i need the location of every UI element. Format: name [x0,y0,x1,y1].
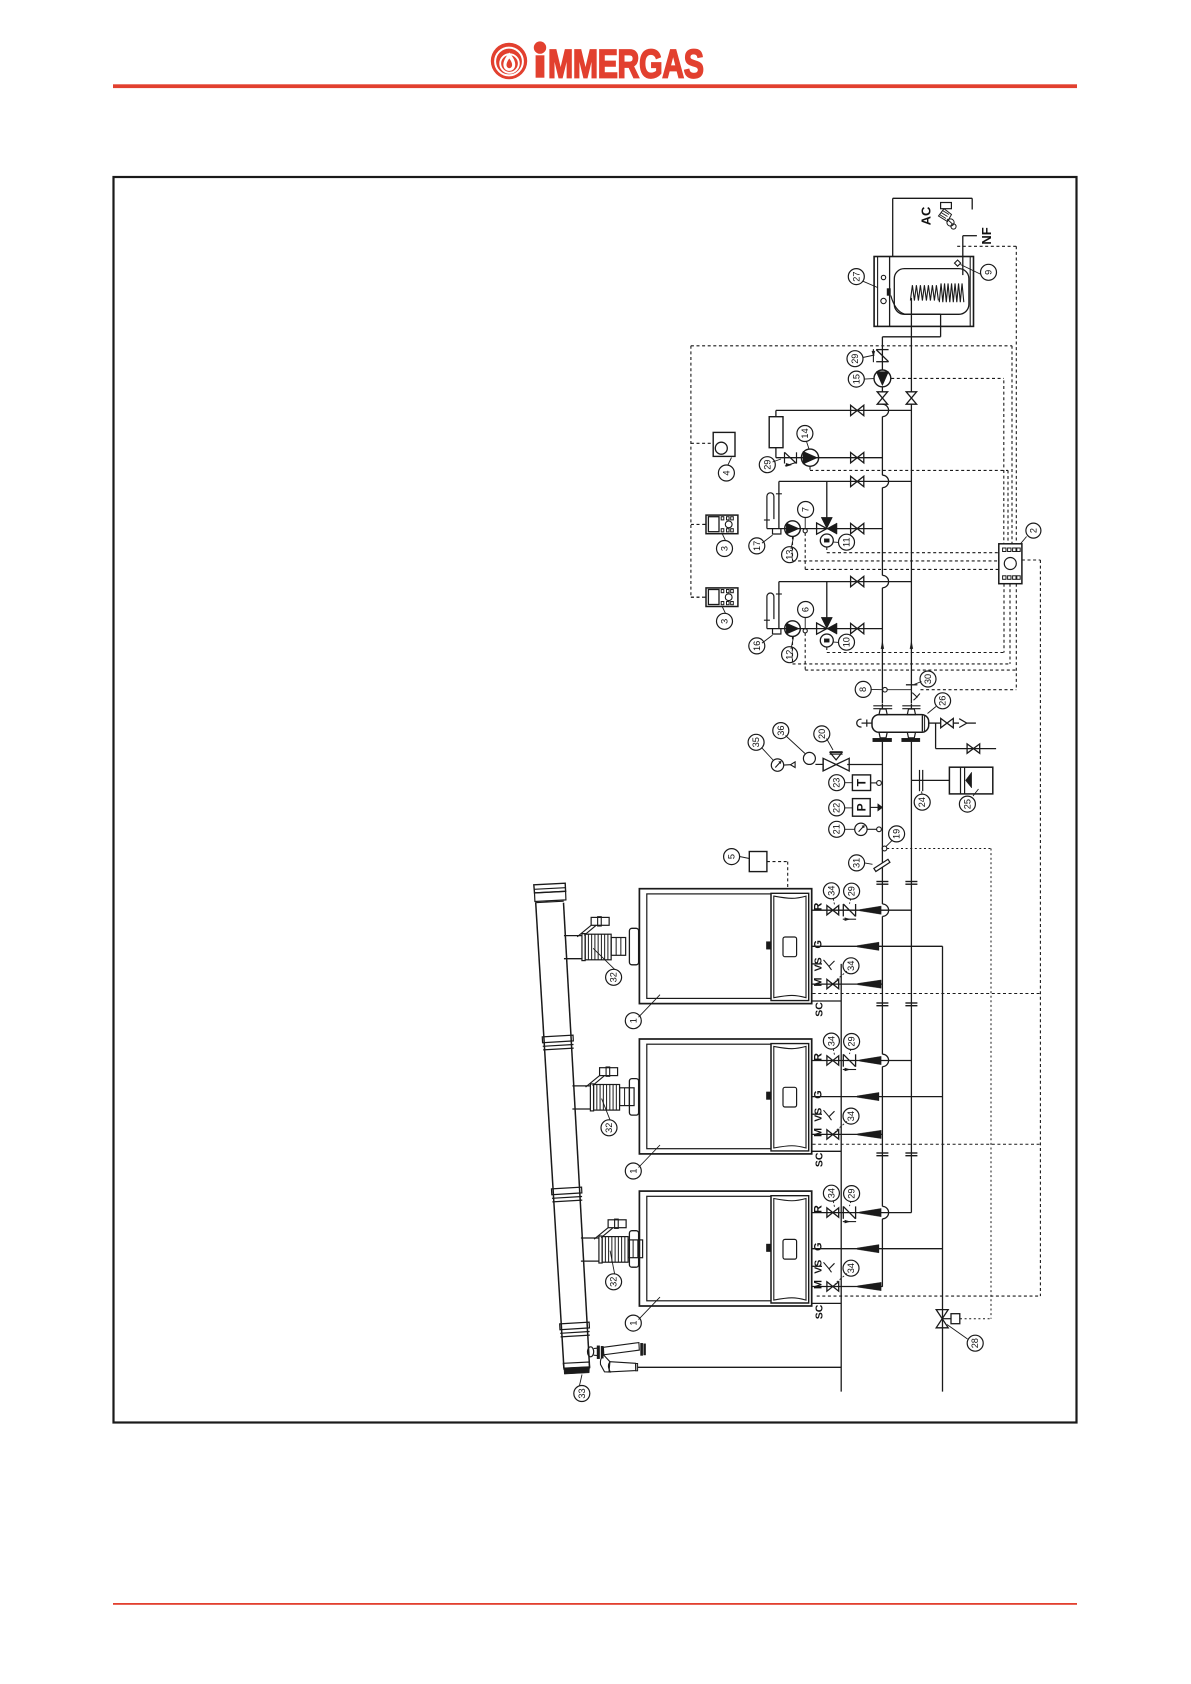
dashed zone2 wires to controller 2 [793,584,1017,670]
label circle 7 [798,502,814,518]
label M boiler 2 [813,1128,825,1137]
svg-text:34: 34 [846,961,856,971]
expansion box 4 [713,432,735,456]
flue gas sensor box 5 [749,852,767,872]
pipe h1 radiator flow header [776,409,912,411]
tank coil heat exchanger [910,283,963,302]
leader 31 [865,863,873,864]
label circle 25 [959,796,975,812]
label circle 29 [844,883,860,899]
DHW storage tank 27 outer casing [874,257,973,327]
svg-text:32: 32 [609,972,619,982]
valve 34 on R boiler 1 [827,906,839,915]
svg-text:29: 29 [850,354,860,364]
leader 15 [864,378,874,381]
leader 1 boiler 2 [639,1145,661,1168]
dashed pump14 wire [810,467,1008,471]
pipe zone 1 return [767,528,883,530]
pipe radiator drop [775,410,777,416]
label circle 28 [967,1335,983,1351]
leader 34 M boiler 2 [835,1121,847,1131]
thermometer well 17 [773,529,781,534]
label circle 1 [625,1315,641,1331]
tank sensor connector 9 [954,260,960,266]
pipe tank coil flow down [882,296,940,337]
label circle 3 [717,541,733,557]
svg-text:1: 1 [628,1168,638,1173]
leader 29 R boiler 3 [850,1201,851,1206]
leader 35 [762,748,774,761]
pipe radiator bottom [775,448,777,458]
label circle 4 [718,465,734,481]
gauge 21 manometer [855,823,882,835]
leader 11 [834,541,840,543]
tank inner vessel [894,269,969,315]
svg-text:13: 13 [785,550,795,560]
valve 34 on M boiler 2 [827,1130,839,1139]
svg-text:26: 26 [938,696,948,706]
svg-text:SC: SC [813,1152,825,1167]
svg-text:24: 24 [917,797,927,807]
leader 2 [1021,537,1027,544]
label circle 34 [843,1108,859,1124]
valve 34 on R boiler 3 [827,1208,839,1217]
flow arrow M boiler 1 [858,980,882,988]
zone 2 load U loop [764,593,782,629]
dashed bus verticals above controller 2 [1004,246,1017,544]
svg-text:5: 5 [727,854,737,859]
svg-text:3: 3 [720,546,730,551]
label circle 19 [889,826,905,842]
isolation valve riser B [906,392,916,404]
dotted boiler 2 wire [813,1143,1041,1145]
label circle 24 [914,794,930,810]
leader 3 zone 2 [722,607,725,614]
dotted wire sensor 19 to gas valve 28 [887,849,991,1319]
svg-text:21: 21 [832,824,842,834]
flow arrow R boiler 3 [860,1208,882,1216]
label circle 8 [855,681,871,697]
svg-text:23: 23 [832,778,842,788]
valve 34 on M boiler 3 [827,1282,839,1291]
isolation valve h1 [851,405,864,415]
label circle 11 [839,534,855,550]
label circle 35 [748,734,764,750]
check valve 29 on R boiler 2 [843,1054,856,1071]
label circle 34 [843,958,859,974]
dashed pump15 wire [891,377,1004,379]
svg-text:11: 11 [842,537,852,547]
leader 30 [915,682,922,685]
flow arrow riser B [910,641,913,649]
dashed wire to controller 3 zone 1 [691,523,703,525]
pump 15 DHW loading [874,337,891,387]
pipe M boiler 3 [812,1286,883,1288]
label circle 32 [606,969,622,985]
svg-text:29: 29 [847,1036,857,1046]
expansion vessel 25 [949,767,992,794]
dashed wire controller 2 to boilers [817,560,1041,1296]
riser B return pipe [910,404,912,1213]
pipe valve to supply zone 1 [826,481,828,517]
label R boiler 3 [813,1205,825,1213]
label R boiler 2 [813,1053,825,1061]
svg-text:12: 12 [785,650,795,660]
svg-text:P: P [854,803,868,811]
svg-text:3: 3 [720,619,730,624]
label VS boiler 2 [813,1108,825,1122]
pump 14 radiator circuit [801,449,818,466]
valve 34 on R boiler 2 [827,1056,839,1065]
leader 14 [807,442,810,450]
flow arrow G boiler 2 [857,1092,879,1100]
svg-text:G: G [813,940,825,949]
leader 33 [580,1375,583,1386]
svg-text:32: 32 [609,1277,619,1287]
pipe valve to supply zone 2 [826,582,828,618]
dashed bus top horizontal [691,345,1012,347]
label NF [979,227,994,244]
svg-text:M: M [813,1280,825,1289]
check valve 29 on R boiler 3 [843,1206,856,1223]
tank small port upper [881,275,885,279]
label circle 3 [717,613,733,629]
leader 1 boiler 1 [639,995,661,1018]
svg-text:34: 34 [846,1263,856,1273]
pipe AC hot outlet [893,198,973,256]
pipe zone 2 supply header [779,581,912,583]
gas valve 28 [936,1310,960,1328]
hydraulic separator 26 [872,704,929,745]
check valve 29 on R boiler 1 [843,904,856,921]
leader 19 [886,840,893,847]
label circle 33 [574,1386,590,1402]
svg-text:22: 22 [832,803,842,813]
svg-text:8: 8 [858,687,868,692]
chimney bottom cap 33 [563,1362,589,1374]
zone controller 3 box zone 2 [703,588,738,607]
label circle 10 [839,634,855,650]
pipe zone 1 supply header [779,480,912,482]
label circle 21 [829,821,845,837]
thermowell 30 on riser B [906,685,920,700]
label circle 34 [843,1260,859,1276]
bottom red rule [113,1603,1077,1605]
leader 27 [863,281,878,287]
pipe M boiler 1 [812,983,883,985]
svg-text:17: 17 [752,541,762,551]
pipe NF cold inlet [963,236,977,275]
pipe G boiler 2 [812,1096,943,1098]
leader 34 R boiler 3 [833,1201,834,1207]
flow arrow R boiler 2 [860,1056,882,1064]
valve 34 on M boiler 1 [827,979,839,988]
label circle 29 [759,457,775,473]
leader 12 [791,637,794,649]
tank thermostat black mark [887,289,891,296]
leader 24 [921,792,924,795]
leader 3 zone 1 [722,534,725,541]
svg-text:34: 34 [826,1036,836,1046]
svg-text:19: 19 [892,829,902,839]
label AC [919,206,934,225]
svg-text:34: 34 [826,1188,836,1198]
thermometer well 16 [773,629,781,634]
label circle 29 [844,1186,860,1202]
leader 28 [947,1325,968,1340]
label M boiler 1 [813,978,825,987]
svg-text:6: 6 [801,607,811,612]
check valve 29 radiator [785,452,797,466]
cascade controller 2 box [999,544,1022,584]
flow arrow M boiler 2 [858,1130,882,1138]
svg-text:1: 1 [628,1321,638,1326]
label VS boiler 1 [813,957,825,971]
flow arrow M boiler 3 [858,1282,882,1290]
sensor dot zone 2 [803,629,807,633]
leader 22 [845,807,853,809]
label G boiler 2 [813,1090,825,1099]
pipe zone 2 supply drop [778,582,780,629]
label circle 23 [829,775,845,791]
svg-text:T: T [855,778,869,786]
leader 29 dhw [863,355,875,358]
leader 26 [928,707,937,714]
leader 1 boiler 3 [639,1297,661,1320]
label circle 22 [829,800,845,816]
label circle 6 [798,602,814,618]
label circle 1 [625,1013,641,1029]
leader 36 [786,736,806,754]
leader 8 [871,688,883,690]
flue connector 32 boiler 3 [581,1219,643,1267]
expansion vessel line 24 [911,770,949,791]
svg-text:30: 30 [923,674,933,684]
Immergas logo icon [491,43,527,79]
svg-text:4: 4 [721,470,731,475]
dashed wire to box 4 [691,442,713,444]
dashed zone1 wires to controller 2 [793,533,999,570]
leader 4 [728,458,732,466]
svg-text:R: R [813,1053,825,1061]
separator right vent line [929,718,976,727]
pipe G boiler 3 [812,1248,943,1250]
dashed wire to sensors 8 30 [921,584,1017,690]
pipe h2 radiator return [776,457,883,459]
svg-text:31: 31 [852,858,862,868]
svg-text:M: M [813,978,825,987]
svg-text:34: 34 [826,886,836,896]
svg-text:10: 10 [842,637,852,647]
pipe VS boiler 1 [812,960,835,970]
svg-text:34: 34 [846,1111,856,1121]
svg-text:16: 16 [752,641,762,651]
svg-text:14: 14 [800,428,810,438]
label circle 13 [782,547,798,563]
gas manifold vertical [942,946,944,1391]
pipe SC boiler 2 [812,1150,842,1152]
label circle 36 [773,723,789,739]
sensor 19 dot [882,846,887,851]
label circle 16 [749,638,765,654]
dashed left control trunk [691,346,703,597]
svg-text:9: 9 [984,270,994,275]
svg-text:G: G [813,1090,825,1099]
riser A main flow pipe with bridges [882,404,888,1287]
check valve 29 DHW column [872,349,889,362]
pump 13 zone 1 [785,521,801,537]
leader 34 R boiler 1 [833,899,834,905]
label circle 27 [848,269,864,285]
radiator heat emitter [769,417,783,448]
svg-text:7: 7 [801,507,811,512]
chimney collars [542,1035,590,1337]
condensate siphon assembly 33 [588,1343,646,1372]
zone 1 load U loop [764,493,782,529]
label circle 17 [749,538,765,554]
leader 6 [804,618,806,629]
leader 7 [804,518,806,529]
label circle 14 [797,426,813,442]
label circle 32 [606,1274,622,1290]
label circle 1 [625,1163,641,1179]
pipe G boiler 1 [812,945,943,947]
flow arrow G boiler 3 [857,1245,879,1253]
svg-text:35: 35 [751,737,761,747]
vent funnel small triangle [791,762,796,768]
three way mixing valve 10 [817,617,837,647]
three way mixing valve 11 [817,517,837,547]
flow switch 31 slash [874,859,890,871]
label circle 31 [849,855,865,871]
flue connector 32 boiler 1 [564,917,639,965]
label SC boiler 1 [813,1002,825,1017]
isolation valve h2 [851,453,864,463]
pipe VS boiler 2 [812,1110,835,1120]
isolation valve zone 1 return [851,523,864,533]
leader 13 [791,537,794,549]
svg-text:27: 27 [851,271,861,281]
svg-text:R: R [813,1205,825,1213]
pipe break marks on risers [876,882,917,1156]
label circle 29 [847,351,863,367]
pipe zone 1 supply drop [778,481,780,528]
svg-text:25: 25 [962,799,972,809]
diagram frame [114,177,1077,1423]
pipe tank coil to riser B [910,298,912,392]
leader 20 [827,739,834,751]
pipe zone 2 return [767,628,883,630]
leader 32 boiler 3 [610,1251,614,1274]
sensor line to bus at separator [887,689,911,691]
separator drain line with valve [936,723,997,753]
pump 12 zone 2 [785,621,801,637]
isolation valve zone 2 supply [851,576,864,586]
leader 16 [762,635,773,643]
boiler 1 unit #3 body [639,1191,811,1306]
svg-text:MMERGAS: MMERGAS [548,43,704,87]
svg-text:33: 33 [577,1388,587,1398]
svg-text:SC: SC [813,1002,825,1017]
dashed wire to controller 3 zone 2 [691,596,703,598]
leader 34 M boiler 1 [835,971,847,981]
label circle 26 [935,693,951,709]
svg-text:SC: SC [813,1304,825,1319]
flow arrow R boiler 1 [860,906,882,914]
label circle 2 [1026,523,1041,538]
svg-text:36: 36 [776,725,786,735]
leader 23 [845,782,853,784]
label circle 29 [844,1034,860,1050]
flue collector chimney [534,883,590,1368]
isolation valve zone 1 supply [851,476,864,486]
pipe SC boiler 1 [812,1000,842,1002]
leader 34 M boiler 3 [835,1274,847,1284]
svg-text:29: 29 [847,886,857,896]
label G boiler 1 [813,940,825,949]
sensor 8 dot on riser A [883,687,888,692]
label circle 32 [601,1120,617,1136]
leader 32 boiler 2 [602,1099,610,1120]
svg-text:28: 28 [970,1338,980,1348]
sensor dot zone 1 [803,529,807,533]
label circle 34 [823,1033,839,1049]
boiler 1 unit #2 body [639,1039,811,1154]
leader 21 [845,828,855,830]
label circle 15 [848,371,864,387]
flow arrow G boiler 1 [857,942,879,950]
condensate collector line [637,1366,841,1368]
dashed NF sensor wire [957,245,1016,247]
top red rule [113,84,1077,88]
label circle 9 [981,264,997,280]
gauge 35 manometer [771,759,790,771]
label VS boiler 3 [813,1260,825,1274]
leader 29 radiator [773,459,782,462]
leader 29 R boiler 1 [850,899,851,904]
svg-text:20: 20 [817,729,827,739]
pipe VS boiler 3 [812,1262,835,1272]
leader 34 R boiler 2 [833,1049,834,1055]
label circle 34 [823,883,839,899]
boiler 1 unit #1 body [639,889,811,1004]
leader 25 [973,789,979,796]
svg-text:G: G [813,1242,825,1251]
svg-text:32: 32 [604,1123,614,1133]
svg-text:NF: NF [979,227,994,244]
leader 9 [961,265,982,275]
leader 32 boiler 1 [593,948,614,969]
pipe SC boiler 3 [812,1302,842,1304]
leader 5 [740,857,750,859]
label circle 34 [823,1185,839,1201]
label M boiler 3 [813,1280,825,1289]
label SC boiler 2 [813,1152,825,1167]
isolation valve zone 2 return [851,623,864,633]
label circle 5 [724,849,740,865]
temperature sensor box 23 [852,775,881,791]
flue connector 32 boiler 2 [572,1067,638,1115]
svg-text:AC: AC [919,206,934,225]
svg-text:2: 2 [1028,528,1038,533]
leader 29 R boiler 2 [850,1049,851,1054]
AC tap symbol [939,203,957,230]
pipe M boiler 2 [812,1133,883,1135]
safety valve 20 group [823,752,882,771]
pipe R boiler 1 [812,909,912,911]
svg-text:1: 1 [628,1018,638,1023]
pipe R boiler 3 [812,1212,912,1214]
